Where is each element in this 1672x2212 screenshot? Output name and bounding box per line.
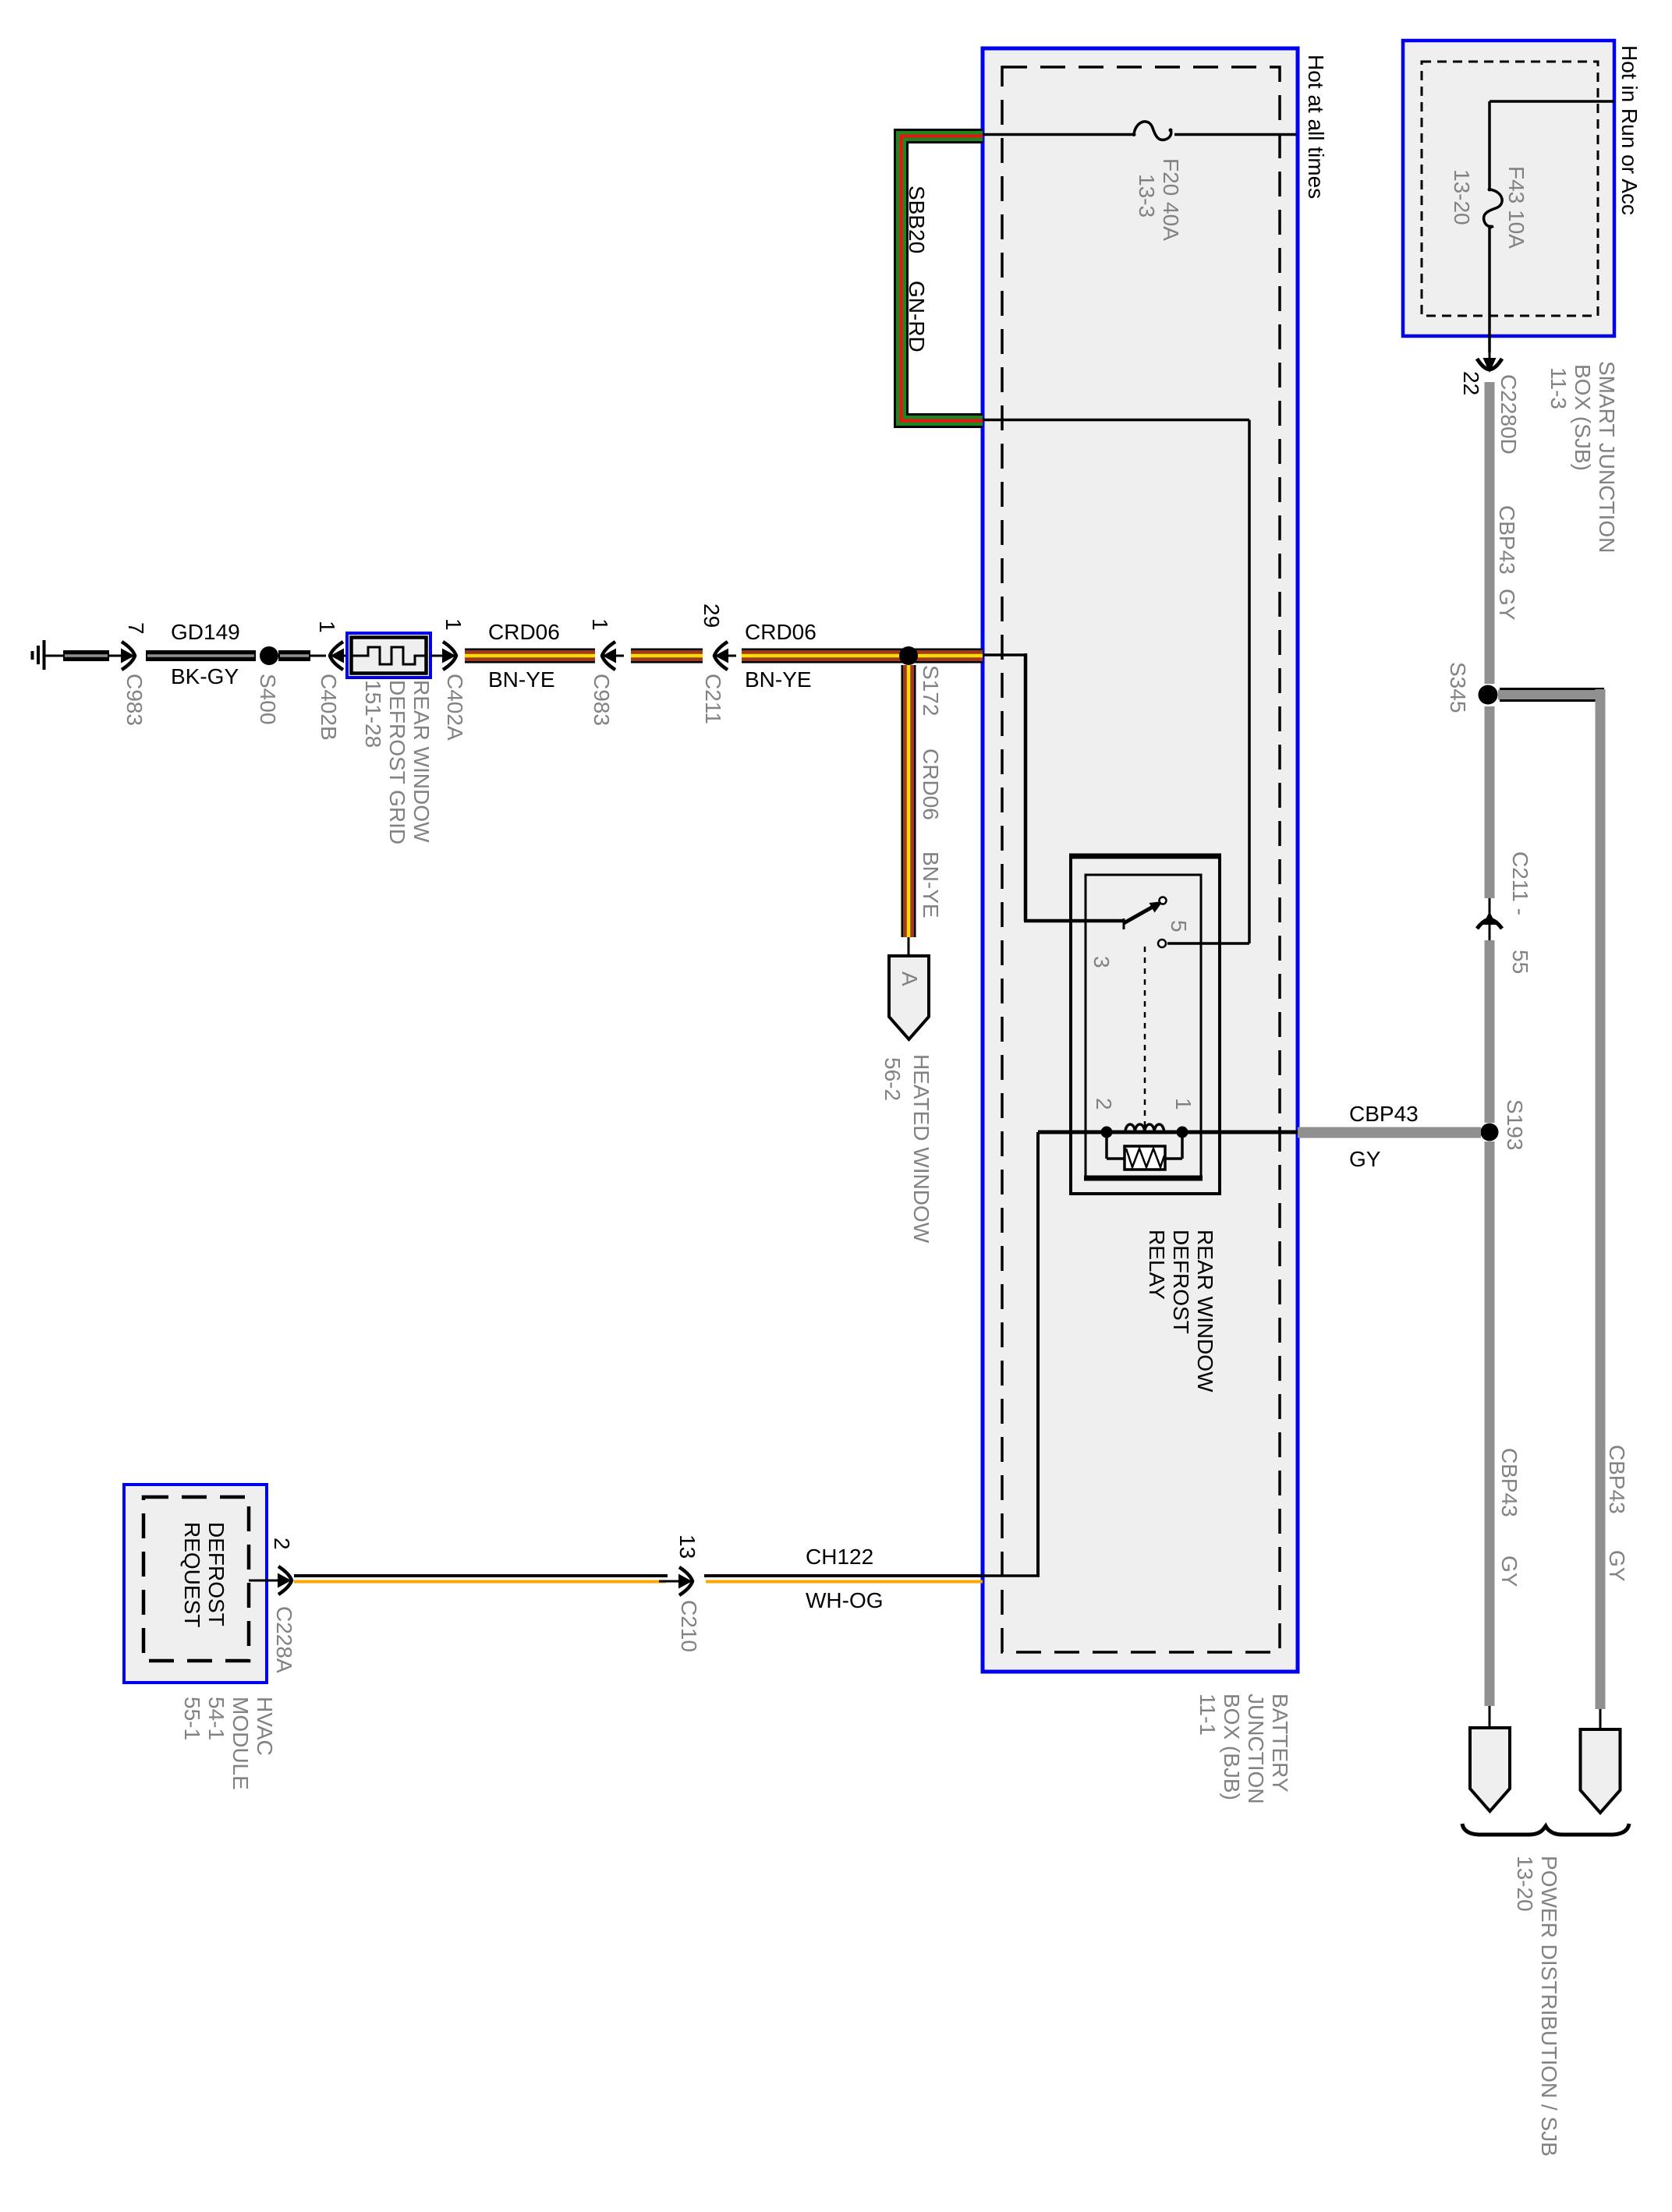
svg-text:GY: GY <box>1497 1555 1521 1587</box>
svg-text:C2280D: C2280D <box>1497 374 1521 455</box>
svg-text:WH-OG: WH-OG <box>806 1588 884 1612</box>
svg-text:CH122: CH122 <box>806 1545 873 1569</box>
svg-text:DEFROST: DEFROST <box>204 1522 228 1626</box>
svg-text:RELAY: RELAY <box>1145 1230 1169 1300</box>
svg-text:CRD06: CRD06 <box>919 749 943 820</box>
svg-text:11-3: 11-3 <box>1546 367 1571 409</box>
svg-text:1: 1 <box>1171 1098 1196 1110</box>
svg-text:S172: S172 <box>919 665 943 716</box>
svg-text:BATTERY: BATTERY <box>1268 1694 1292 1793</box>
svg-text:11-1: 11-1 <box>1196 1694 1220 1736</box>
svg-text:13-20: 13-20 <box>1450 169 1474 225</box>
svg-text:BOX (BJB): BOX (BJB) <box>1220 1694 1244 1800</box>
svg-text:F43 10A: F43 10A <box>1504 166 1529 249</box>
svg-text:7: 7 <box>124 622 148 635</box>
svg-text:3: 3 <box>1089 956 1114 968</box>
svg-text:55-1: 55-1 <box>180 1697 204 1740</box>
svg-text:BK-GY: BK-GY <box>171 664 239 688</box>
svg-text:1: 1 <box>441 618 466 631</box>
svg-text:POWER DISTRIBUTION / SJB: POWER DISTRIBUTION / SJB <box>1537 1856 1561 2157</box>
svg-text:REQUEST: REQUEST <box>180 1522 204 1627</box>
svg-text:MODULE: MODULE <box>228 1697 253 1790</box>
svg-text:C983: C983 <box>122 674 147 726</box>
svg-text:22: 22 <box>1459 371 1483 395</box>
svg-text:2: 2 <box>1092 1098 1116 1110</box>
svg-text:56-2: 56-2 <box>880 1057 905 1101</box>
svg-text:S193: S193 <box>1503 1099 1527 1150</box>
svg-text:BN-YE: BN-YE <box>919 851 943 918</box>
svg-text:GN-RD: GN-RD <box>905 281 929 352</box>
svg-text:SMART JUNCTION: SMART JUNCTION <box>1595 361 1619 553</box>
svg-text:5: 5 <box>1167 920 1191 933</box>
svg-text:HVAC: HVAC <box>253 1697 277 1756</box>
svg-text:JUNCTION: JUNCTION <box>1244 1694 1268 1804</box>
svg-text:S400: S400 <box>256 674 280 724</box>
svg-text:DEFROST GRID: DEFROST GRID <box>385 680 409 844</box>
svg-text:1: 1 <box>315 621 339 633</box>
svg-text:CBP43: CBP43 <box>1605 1445 1629 1514</box>
svg-text:GY: GY <box>1495 589 1519 621</box>
svg-text:29: 29 <box>700 603 724 628</box>
svg-text:SBB20: SBB20 <box>905 186 929 253</box>
svg-text:CBP43: CBP43 <box>1497 1448 1521 1517</box>
svg-text:C211 -: C211 - <box>1508 851 1532 915</box>
svg-text:BN-YE: BN-YE <box>488 667 555 692</box>
svg-text:GY: GY <box>1605 1550 1629 1582</box>
svg-text:55: 55 <box>1508 950 1532 974</box>
svg-text:151-28: 151-28 <box>361 680 385 748</box>
svg-text:13-20: 13-20 <box>1513 1856 1537 1912</box>
svg-text:C211: C211 <box>701 674 725 724</box>
svg-text:CBP43: CBP43 <box>1349 1102 1419 1126</box>
svg-text:13: 13 <box>675 1534 700 1559</box>
svg-text:CRD06: CRD06 <box>488 620 560 644</box>
svg-text:C210: C210 <box>677 1600 701 1652</box>
svg-text:F20 40A: F20 40A <box>1159 158 1183 241</box>
svg-text:CBP43: CBP43 <box>1495 505 1519 575</box>
svg-text:1: 1 <box>588 618 612 631</box>
svg-text:BN-YE: BN-YE <box>745 667 812 692</box>
svg-text:REAR WINDOW: REAR WINDOW <box>409 680 434 843</box>
svg-text:C402B: C402B <box>317 674 341 741</box>
svg-text:Hot at all times: Hot at all times <box>1304 55 1328 199</box>
svg-text:C228A: C228A <box>272 1606 296 1673</box>
svg-text:HEATED WINDOW: HEATED WINDOW <box>909 1054 933 1244</box>
svg-text:C983: C983 <box>590 674 614 726</box>
svg-text:Hot in Run or Acc: Hot in Run or Acc <box>1617 45 1642 215</box>
svg-text:C402A: C402A <box>443 674 467 741</box>
svg-text:BOX (SJB): BOX (SJB) <box>1571 364 1595 471</box>
svg-text:13-3: 13-3 <box>1135 174 1159 218</box>
svg-text:54-1: 54-1 <box>204 1697 228 1740</box>
svg-text:S345: S345 <box>1446 662 1470 713</box>
svg-text:DEFROST: DEFROST <box>1169 1230 1193 1334</box>
svg-text:REAR WINDOW: REAR WINDOW <box>1193 1230 1217 1393</box>
svg-text:GD149: GD149 <box>171 620 240 644</box>
svg-text:2: 2 <box>270 1538 294 1550</box>
svg-text:A: A <box>898 972 922 986</box>
svg-text:CRD06: CRD06 <box>745 620 817 644</box>
svg-text:GY: GY <box>1349 1147 1381 1171</box>
